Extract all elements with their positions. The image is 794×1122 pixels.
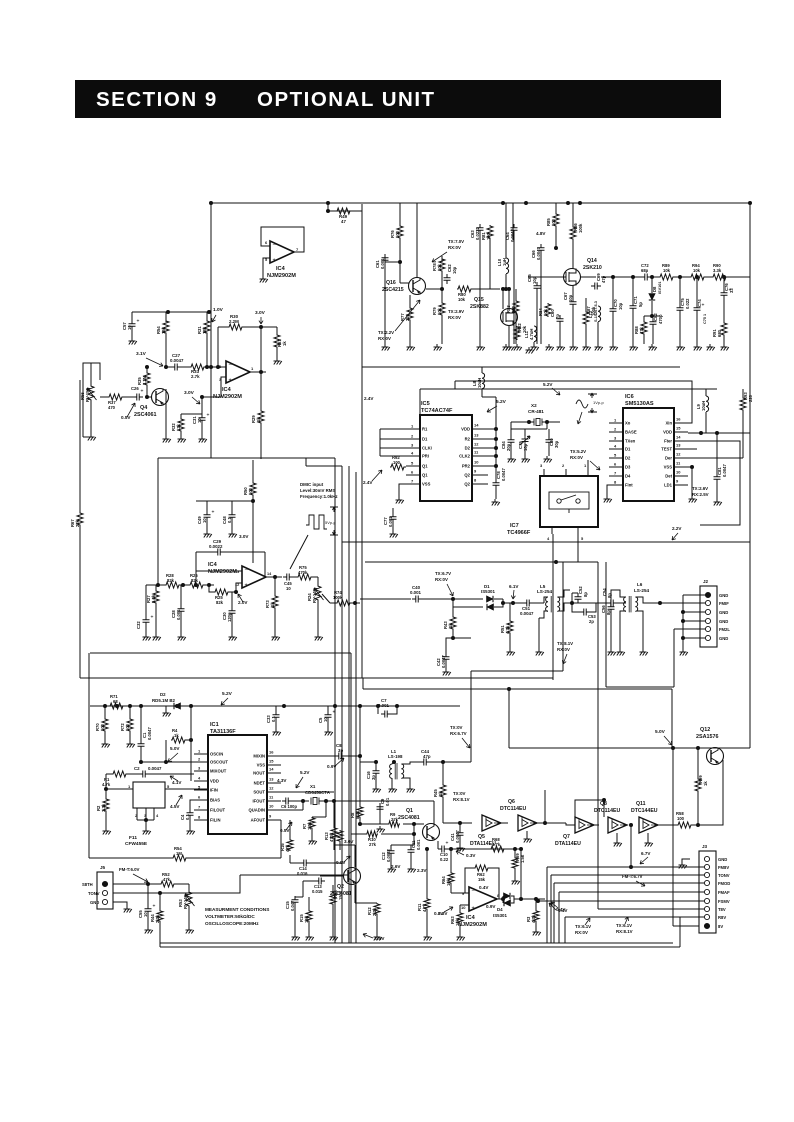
svg-text:Q7: Q7: [563, 834, 570, 840]
svg-text:5.2V: 5.2V: [222, 691, 233, 697]
ground R72: [127, 741, 135, 748]
ground L6b: [640, 649, 648, 656]
capacitor C2: [139, 771, 149, 778]
wire R12 tie: [355, 902, 377, 904]
svg-text:+: +: [212, 510, 215, 516]
wire C29 left: [196, 551, 214, 553]
svg-text:3.0V: 3.0V: [239, 534, 249, 539]
svg-text:0.0047: 0.0047: [148, 766, 162, 771]
wire box bottom: [83, 436, 91, 438]
ground C9: [377, 826, 385, 833]
wire R7 dn: [311, 829, 313, 838]
resistor R86: [570, 226, 576, 240]
wire 6V rail: [509, 747, 750, 749]
wire C29 drop left: [195, 552, 197, 585]
svg-text:D2: D2: [160, 692, 166, 697]
svg-text:5.0V: 5.0V: [655, 729, 666, 735]
wire rail left: [90, 705, 109, 707]
svg-text:Q5: Q5: [478, 834, 485, 840]
wire D2 dn: [166, 706, 170, 710]
wire IC5 pin 9: [472, 474, 488, 476]
svg-text:10: 10: [286, 586, 291, 591]
wire top supply bus: [211, 202, 750, 204]
svg-text:Q14: Q14: [587, 258, 597, 264]
ground C33: [273, 729, 281, 736]
svg-text:R2: R2: [465, 437, 471, 442]
ground R83: [514, 344, 522, 351]
resistor R10: [366, 831, 378, 837]
wire R54 run: [89, 857, 172, 859]
wire C10 out: [448, 848, 521, 850]
wire IC7 pin5 drop: [577, 534, 579, 562]
wire R80 out: [472, 288, 500, 290]
wire L5 pri bot: [539, 611, 548, 618]
IC7 switch symbol: [557, 499, 561, 503]
svg-text:100: 100: [486, 232, 491, 240]
resistor R37: [108, 394, 123, 400]
wire leader: [192, 397, 200, 404]
junction top right: [748, 201, 752, 205]
capacitor C48: [229, 511, 236, 521]
svg-text:100: 100: [248, 487, 253, 495]
capacitor C60: [557, 315, 564, 325]
wire Q4 collector rail: [132, 311, 211, 313]
svg-text:VDD: VDD: [663, 430, 672, 435]
wire C55 dn: [147, 915, 149, 927]
resistor R81: [487, 225, 493, 239]
wire TONV left run: [240, 874, 349, 876]
junction: [259, 325, 263, 329]
wire L10 dn: [505, 274, 507, 289]
ground R56: [88, 434, 96, 441]
wire R81 dn: [489, 239, 491, 289]
J5 pin S8TH: [102, 881, 107, 886]
svg-text:10k: 10k: [437, 263, 442, 271]
wire cap bus: [511, 428, 547, 430]
wire PLL left edge: [361, 367, 363, 678]
svg-text:X2: X2: [531, 403, 537, 408]
svg-text:3.1V: 3.1V: [136, 351, 147, 357]
svg-text:RX:0V: RX:0V: [448, 315, 461, 320]
wire IC7pin5 drop2: [562, 562, 564, 671]
wire BIAS dn: [190, 800, 194, 810]
wire C56 tie: [611, 590, 626, 604]
ground C64: [503, 344, 511, 351]
wire C81 dn: [716, 483, 718, 499]
svg-text:L12: L12: [588, 310, 593, 318]
junction: [722, 275, 726, 279]
op-amp IC4 (mic): [242, 566, 266, 588]
wire R13 stub: [333, 801, 335, 827]
svg-text:0.0022: 0.0022: [209, 544, 223, 549]
wire C63 dn: [479, 234, 481, 344]
wire TEST stub: [688, 448, 697, 450]
svg-text:CLK2: CLK2: [459, 454, 471, 459]
resistor R15: [306, 910, 312, 922]
wire R90 out: [727, 276, 750, 278]
svg-text:470p: 470p: [658, 314, 663, 324]
svg-text:14: 14: [474, 423, 479, 428]
J3 pin TONV: [704, 872, 709, 877]
ground R73: [272, 634, 280, 641]
wire C15 link: [302, 881, 304, 897]
J5 pin GND: [102, 899, 107, 904]
svg-text:RX:0V: RX:0V: [435, 577, 448, 582]
svg-text:+: +: [137, 319, 140, 325]
inductor L10: [506, 258, 509, 274]
wire D4 tie2: [511, 896, 514, 903]
resistor R91: [721, 322, 727, 336]
ground R3: [533, 929, 541, 936]
svg-text:IC4: IC4: [276, 266, 286, 272]
wire C71 up: [632, 277, 634, 302]
wire q6 out: [533, 822, 566, 824]
ground Q15: [506, 344, 514, 351]
svg-text:R8V: R8V: [718, 915, 726, 920]
svg-text:CFW455E: CFW455E: [125, 841, 148, 847]
ground Q8: [614, 840, 622, 847]
wire FMAF drop dn: [558, 892, 560, 943]
ground C12: [388, 866, 396, 873]
resistor R80: [457, 286, 472, 292]
junction: [534, 897, 538, 901]
wire bundle b: [355, 472, 357, 943]
wire R87 up: [585, 298, 587, 311]
wire q12 coll stub: [714, 747, 716, 749]
diode D1b: [487, 604, 494, 610]
wire D8 up: [651, 277, 653, 293]
wire quadin link: [302, 801, 304, 810]
svg-text:5.6k: 5.6k: [151, 594, 156, 603]
wire C16 up: [375, 762, 377, 767]
svg-text:OSCIN: OSCIN: [210, 752, 223, 757]
wire leader TX2.2: [395, 300, 420, 331]
svg-text:VDD: VDD: [461, 427, 470, 432]
wire IC5 left links: [379, 429, 381, 456]
wire IC6 pin 9: [674, 484, 688, 486]
svg-text:1k: 1k: [270, 602, 275, 607]
wire IC6 pin 3: [609, 440, 623, 442]
wire R9 out: [403, 823, 424, 825]
wire R70 dn: [104, 732, 106, 741]
wire C2 left: [126, 773, 139, 775]
wire R37 left: [100, 396, 108, 398]
wire q12 emit dn: [698, 760, 723, 825]
capacitor C16: [373, 767, 380, 777]
wire C56 dn: [610, 613, 612, 649]
wire R69 dn: [514, 869, 516, 878]
svg-text:10: 10: [197, 418, 202, 423]
wire opamp out: [497, 898, 503, 900]
wire leader fmt67: [636, 881, 645, 886]
ground C63: [477, 344, 485, 351]
svg-text:0.0022: 0.0022: [386, 849, 391, 862]
wire to C40: [360, 598, 411, 600]
wire R7 tie: [312, 816, 326, 818]
diode D4b: [504, 900, 511, 906]
ground C77: [390, 531, 398, 538]
wire R3 link: [535, 899, 537, 910]
wire R44 dn: [159, 922, 161, 943]
capacitor C54: [607, 600, 617, 607]
svg-text:47k: 47k: [285, 844, 290, 852]
wire L8 dn: [481, 389, 483, 397]
resistor R28: [165, 582, 180, 588]
wire IC6 pin 12: [674, 457, 688, 459]
wire bus 671: [471, 670, 563, 672]
capacitor C27: [171, 364, 181, 371]
svg-text:Q6: Q6: [508, 799, 515, 805]
wire R77 stub: [409, 295, 411, 307]
wire r15 up: [308, 897, 310, 906]
wire C52 tie: [572, 592, 578, 594]
wire FMOD drop dn: [553, 883, 555, 943]
svg-text:IFIN: IFIN: [210, 788, 218, 793]
svg-text:Q16: Q16: [386, 280, 396, 286]
wire leader 5v: [664, 736, 672, 745]
wire TONV run: [551, 874, 704, 876]
wire bottom rail 2: [160, 946, 680, 948]
wire to C27: [166, 366, 171, 368]
ground C81: [714, 499, 722, 506]
wire R76 stub: [399, 203, 401, 225]
wire R53 dn: [188, 907, 190, 927]
junction: [629, 823, 633, 827]
wire X1 out: [319, 800, 334, 802]
wire 5.2V run2: [420, 388, 717, 390]
svg-text:47k: 47k: [163, 877, 171, 882]
svg-text:C32: C32: [136, 621, 141, 629]
wire Q1 base row: [360, 823, 388, 825]
capacitor C72: [641, 274, 651, 281]
svg-text:TX:0V: TX:0V: [453, 791, 466, 796]
resistor R84: [545, 303, 551, 317]
wire leader TX7: [432, 252, 447, 262]
wire to C61: [385, 254, 400, 262]
ground L6a: [617, 649, 625, 656]
wire R93 up: [742, 389, 744, 397]
wire in a: [158, 584, 165, 586]
wire IC1 pin 6: [194, 799, 208, 801]
wire VSS dn2: [688, 467, 692, 496]
wire mid bus 562: [365, 561, 598, 563]
svg-text:S-14207-6.3: S-14207-6.3: [594, 301, 598, 322]
wire IC1 pin 8: [194, 819, 208, 821]
svg-text:TX:2.2V: TX:2.2V: [378, 330, 394, 335]
wire buf in: [443, 822, 472, 824]
ground C15: [292, 934, 300, 941]
wire leader: [585, 918, 590, 925]
resistor R11: [424, 898, 430, 910]
wire C84 dn: [510, 446, 512, 456]
J3 pin GND: [704, 856, 709, 861]
svg-text:X1: X1: [310, 784, 316, 789]
wire R54 stub: [165, 312, 167, 320]
buffer Q8 DTC114EU: [608, 817, 627, 833]
wire IC1 pin 15: [267, 764, 281, 766]
transistor Q4: [152, 389, 169, 406]
resistor R76: [397, 225, 403, 239]
wire C30 up: [231, 592, 233, 607]
junction: [494, 437, 498, 441]
wire C41 dn: [459, 839, 461, 845]
wire C31 dn: [201, 424, 203, 436]
svg-text:4.7k: 4.7k: [422, 903, 427, 912]
capacitor C76: [721, 289, 728, 299]
svg-text:8V: 8V: [718, 924, 723, 929]
wire mid drop: [350, 653, 352, 943]
resistor R87: [583, 311, 589, 325]
resistor R62: [474, 865, 489, 871]
wire leader wave: [577, 412, 582, 424]
wire Q14 drain out: [581, 276, 596, 278]
svg-text:Der: Der: [665, 456, 672, 461]
wire bus 689: [363, 688, 672, 690]
wire C74 dn: [696, 314, 698, 344]
wire Der run: [688, 457, 743, 459]
wire C84 up: [510, 422, 512, 436]
junction: [216, 365, 220, 369]
svg-text:TONV: TONV: [718, 873, 730, 878]
wire bus 678: [80, 677, 553, 679]
wire IC5 pin 10: [472, 465, 488, 467]
wire L6 out: [636, 597, 660, 603]
junction: [695, 275, 699, 279]
wire IC5 pin 5: [406, 465, 420, 467]
capacitor C78: [493, 479, 500, 489]
svg-text:3.3k: 3.3k: [713, 268, 722, 273]
wire IC6 pin 11: [674, 466, 688, 468]
svg-text:13: 13: [676, 443, 681, 448]
wire X2 left: [511, 421, 534, 423]
svg-text:LS-254: LS-254: [537, 589, 553, 594]
wire D4 tie: [502, 896, 504, 903]
wire C54 out: [617, 602, 626, 604]
wire rail drop left: [508, 689, 510, 748]
junction: [207, 310, 211, 314]
wire C76 up: [723, 277, 725, 289]
wire C5 up: [327, 706, 329, 711]
junction: [181, 583, 185, 587]
wire leader 04: [551, 902, 558, 908]
svg-text:RX:8.1V: RX:8.1V: [453, 797, 470, 802]
wire R43 stub: [452, 599, 454, 616]
wire C65 dn: [536, 292, 538, 344]
capacitor C12: [388, 847, 395, 857]
transformer L6 LS-254: [624, 597, 638, 611]
ground C80: [544, 456, 552, 463]
J2 pin GND: [705, 609, 710, 614]
wire elbow2: [362, 678, 364, 689]
junction: [494, 454, 498, 458]
wire bundle a: [348, 466, 350, 943]
wire C41 up: [459, 823, 461, 829]
wire PLL bottom rail: [342, 541, 750, 543]
capacitor C53: [580, 609, 590, 616]
wire rail to R4: [190, 706, 192, 740]
junction: [395, 704, 399, 708]
svg-text:GND: GND: [719, 619, 728, 624]
wire IC6 pin 1: [609, 422, 623, 424]
svg-text:FM-T:6.7V: FM-T:6.7V: [622, 874, 643, 879]
svg-text:10p: 10p: [532, 276, 537, 284]
wire C28 up: [180, 585, 182, 605]
junction: [144, 818, 148, 822]
svg-text:FILIN: FILIN: [210, 818, 220, 823]
svg-text:TX:5.2V: TX:5.2V: [570, 449, 586, 454]
junction: [578, 201, 582, 205]
svg-text:1Vp-p: 1Vp-p: [593, 400, 604, 405]
junction: [333, 704, 337, 708]
wire R29 down: [260, 424, 262, 459]
svg-text:D1: D1: [422, 437, 428, 442]
wire pin10 in: [460, 904, 469, 906]
ground C31: [199, 436, 207, 443]
diode D2: [174, 703, 181, 709]
junction: [494, 464, 498, 468]
junction: [507, 287, 511, 291]
wire L1 tie: [392, 762, 394, 764]
wire drop to L1 row: [470, 671, 472, 762]
wire IC7 pin3: [543, 469, 545, 476]
diode D1a: [487, 596, 494, 602]
svg-text:5.2V: 5.2V: [496, 399, 507, 405]
wire q11 gnd stub: [647, 833, 649, 840]
svg-text:10p: 10p: [618, 302, 623, 310]
ground IC6 fint: [604, 496, 612, 503]
svg-text:2SC4081: 2SC4081: [398, 815, 420, 821]
junction: [145, 395, 149, 399]
wire C48 dn: [231, 521, 233, 531]
resistor R8: [357, 806, 363, 818]
svg-text:3p: 3p: [371, 775, 376, 780]
svg-text:TX:2.6V: TX:2.6V: [692, 486, 708, 491]
junction top-left: [209, 201, 213, 205]
capacitor C13: [315, 878, 325, 885]
svg-text:220: 220: [748, 394, 753, 402]
wire Q14 gate link: [528, 276, 566, 278]
wire in c: [204, 584, 214, 586]
svg-text:3.0V: 3.0V: [184, 390, 195, 396]
ground C67: [570, 344, 578, 351]
svg-text:SM5130AS: SM5130AS: [625, 401, 654, 407]
junction: [146, 882, 150, 886]
wire link: [556, 561, 578, 563]
wire C77 up: [392, 508, 394, 513]
svg-text:470: 470: [108, 405, 116, 410]
wire L8 up: [481, 367, 483, 373]
resistor R25: [214, 589, 229, 595]
wire C80 up: [548, 429, 550, 436]
IC IC5 TC74AC74F: [420, 415, 472, 501]
svg-text:BIAS: BIAS: [210, 798, 220, 803]
wire leader 3.0V: [259, 317, 263, 324]
wire R85 dn: [555, 227, 557, 248]
wire R87 dn: [585, 325, 587, 344]
svg-text:CLKI: CLKI: [422, 446, 432, 451]
wire leader tx81: [562, 654, 567, 664]
svg-text:15: 15: [676, 426, 681, 431]
svg-text:100: 100: [100, 723, 105, 731]
wire to pin9: [451, 892, 469, 894]
svg-text:14: 14: [676, 435, 681, 440]
ground J2: [680, 649, 688, 656]
ground R27: [153, 634, 161, 641]
svg-text:0.015: 0.015: [312, 889, 323, 894]
wire C10 node dn: [520, 849, 522, 899]
ground D2: [163, 710, 171, 717]
resistor R32: [178, 418, 184, 432]
